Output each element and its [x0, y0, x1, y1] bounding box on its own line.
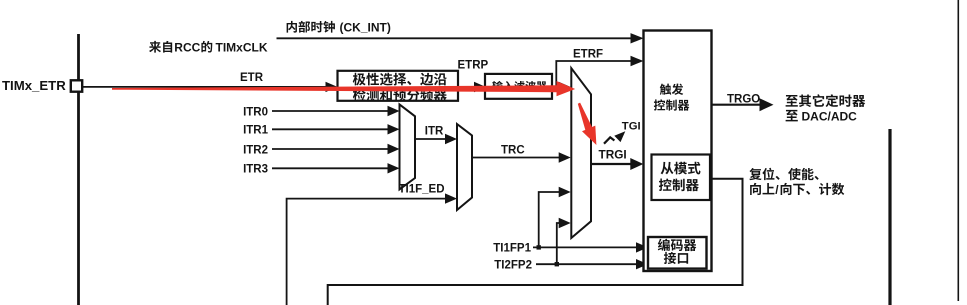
text 编码器: [658, 239, 697, 251]
arrowhead TRC into TRGI mux: [559, 152, 571, 162]
svg-text:(CK_INT): (CK_INT): [340, 21, 391, 35]
svg-text:ITR0: ITR0: [243, 106, 268, 118]
interrupt zigzag arrow TGI: [604, 137, 614, 143]
wire ETRF up and right: [552, 61, 632, 87]
wire CK_INT: [277, 37, 632, 39]
label 复位、使能、: [749, 168, 818, 180]
label 向上/向下、计数: [750, 183, 774, 195]
arrowhead TI1F_ED into TRC mux: [445, 193, 457, 203]
svg-text:ETRP: ETRP: [458, 60, 489, 72]
arrowhead TI1FP1 into TRGI mux: [559, 187, 571, 197]
wire TI1FP1 branch to TRGI mux: [539, 192, 560, 247]
mux ITR selector: [400, 104, 416, 189]
annotation red arrow 1 (horizontal to TRGI mux): [112, 81, 575, 96]
label 至 DAC/ADC: [786, 110, 798, 122]
arrowhead TRGO: [760, 98, 774, 111]
label 内部时钟 (internal clock): [287, 21, 335, 33]
svg-text:ITR2: ITR2: [243, 144, 268, 156]
wire TI1FP1: [533, 246, 637, 248]
svg-text:TI2FP2: TI2FP2: [494, 259, 532, 271]
annotation red arrow 2 (diagonal to TRGI): [578, 103, 597, 145]
block polarity selection / edge detector & prescaler: [338, 71, 459, 101]
text 控制器 (slave): [659, 178, 699, 191]
block slave mode controller: [652, 155, 711, 201]
svg-text:TI1F_ED: TI1F_ED: [399, 184, 445, 196]
arrowhead ETR into polarity block: [326, 82, 338, 92]
wire TI2FP2: [536, 263, 637, 265]
svg-text:TIMxCLK: TIMxCLK: [216, 41, 268, 55]
wire ETR: [82, 86, 326, 88]
wire TIMx_ETR pin vertical rail: [77, 34, 80, 305]
wire TRGI: [591, 163, 632, 165]
wire ETRF to mux: [556, 86, 560, 88]
svg-text:ETR: ETR: [240, 72, 264, 84]
wire ITR1: [272, 128, 389, 130]
wire ITR to TRC mux: [415, 138, 448, 140]
wire right thick rail: [888, 129, 891, 305]
svg-text:ETRF: ETRF: [573, 49, 603, 61]
text 从模式: [661, 162, 701, 175]
mux TRC selector: [457, 124, 472, 210]
svg-text:TRGO: TRGO: [727, 93, 760, 105]
svg-text:DAC/ADC: DAC/ADC: [802, 110, 858, 124]
svg-text:TI1FP1: TI1FP1: [493, 243, 531, 255]
mux TRGI selector: [571, 68, 591, 238]
text 控制器 (trigger): [654, 99, 690, 110]
block trigger controller: [644, 31, 712, 272]
svg-text:TGI: TGI: [622, 121, 641, 133]
svg-text:ITR3: ITR3: [243, 164, 268, 176]
arrowhead ITR1 into ITR mux: [388, 124, 400, 134]
wire right thin border: [957, 0, 959, 301]
arrowhead ETRP into input filter: [474, 82, 486, 92]
text 接口: [664, 252, 688, 264]
arrowhead ITR3 into ITR mux: [388, 163, 400, 173]
arrowhead ITR0 into ITR mux: [388, 106, 400, 116]
block encoder interface: [648, 237, 707, 269]
arrowhead ETRF into TRGI mux: [559, 82, 571, 92]
text 极性选择、边沿: [353, 73, 447, 86]
junction TI1FP1: [537, 245, 541, 249]
wire slave mode controller output to counter: [328, 179, 743, 305]
label 来自RCC的TIMxCLK: [149, 41, 172, 53]
arrowhead TI1FP1 into encoder interface: [636, 242, 648, 252]
pad TIMx_ETR input square: [71, 80, 82, 91]
arrowhead CK_INT into trigger controller: [631, 33, 644, 43]
wire ITR2: [272, 148, 389, 150]
arrowhead ETRF into trigger controller: [631, 56, 644, 66]
text 输入滤波器: [492, 81, 547, 92]
wire ITR0: [272, 110, 389, 112]
svg-text:ITR: ITR: [425, 126, 444, 138]
svg-text:TIMx_ETR: TIMx_ETR: [2, 78, 66, 93]
wire ETRP: [458, 86, 475, 88]
junction TI2FP2: [555, 262, 559, 266]
svg-text:ITR1: ITR1: [243, 125, 269, 137]
label 至其它定时器: [786, 94, 866, 107]
text 触发: [660, 84, 683, 95]
wire TI2FP2 branch to TRGI mux: [557, 223, 561, 264]
arrowhead TRGI into trigger controller: [630, 158, 643, 170]
wire TI1F_ED: [287, 199, 446, 305]
text 检测和预分频器: [353, 89, 447, 102]
svg-text:RCC: RCC: [174, 41, 200, 55]
arrowhead TI2FP2 into TRGI mux: [559, 218, 571, 228]
arrowhead ITR into TRC mux: [445, 134, 457, 144]
arrowhead TI2FP2 into encoder interface: [636, 259, 648, 269]
wire ITR3: [272, 167, 389, 169]
wire TRC to TRGI mux: [472, 157, 560, 159]
wire TRGO: [712, 104, 761, 106]
svg-text:TRC: TRC: [501, 145, 525, 157]
block input filter: [485, 74, 552, 99]
svg-text:TRGI: TRGI: [599, 148, 627, 162]
arrowhead ITR2 into ITR mux: [388, 144, 400, 154]
